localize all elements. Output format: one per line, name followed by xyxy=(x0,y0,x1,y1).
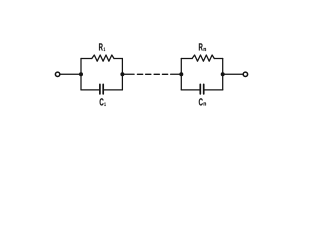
wire left vertical of section n xyxy=(180,59,182,90)
wire node D to terminal T2 xyxy=(223,73,243,75)
node A junction dot xyxy=(79,72,83,76)
node D junction dot xyxy=(221,72,225,76)
terminal T2 (right open circle) xyxy=(243,72,247,76)
wire solid lead from node B xyxy=(122,73,134,75)
wire solid lead to node C xyxy=(171,73,182,75)
label Rn xyxy=(199,43,203,50)
label Cn xyxy=(199,98,203,105)
resistor Rn xyxy=(192,55,214,61)
node C junction dot xyxy=(179,72,183,76)
wire right vertical of section n xyxy=(222,59,224,90)
wire left vertical of section 1 xyxy=(80,59,82,90)
capacitor C1 xyxy=(100,84,103,94)
label R1 xyxy=(99,43,103,50)
terminal T1 (left open circle) xyxy=(55,72,59,76)
wire dashed continuation xyxy=(137,73,167,75)
node B junction dot xyxy=(120,72,124,76)
wire right vertical of section 1 xyxy=(121,59,123,90)
wire top rail left lead of Rn xyxy=(181,58,192,60)
wire bottom rail right lead of C1 xyxy=(104,89,123,91)
capacitor Cn xyxy=(200,84,203,94)
wire bottom rail right lead of Cn xyxy=(204,89,222,91)
resistor R1 xyxy=(92,55,114,61)
wire top rail right lead of R1 xyxy=(114,58,122,60)
wire top rail right lead of Rn xyxy=(214,58,222,60)
wire T1 to node A xyxy=(60,73,81,75)
label C1 xyxy=(100,98,104,105)
wire bottom rail left lead of Cn xyxy=(181,89,199,91)
wire top rail left lead of R1 xyxy=(81,58,92,60)
wire bottom rail left lead of C1 xyxy=(81,89,99,91)
